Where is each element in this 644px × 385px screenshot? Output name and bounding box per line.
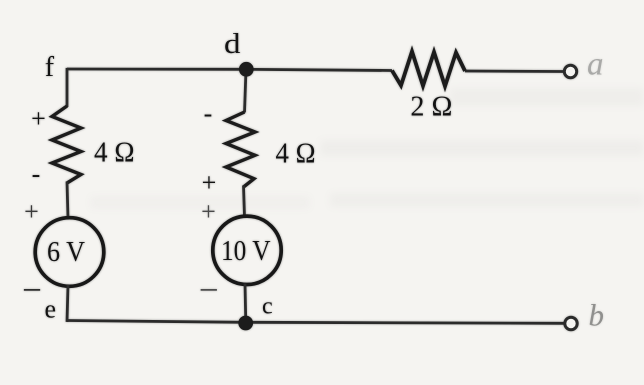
wire left vertical f down to R1 <box>66 68 69 107</box>
svg-text:−: − <box>22 270 42 309</box>
svg-text:d: d <box>224 29 241 60</box>
node c junction dot <box>238 316 253 331</box>
svg-text:+: + <box>201 197 216 226</box>
wire from node d down to R2 <box>245 69 247 112</box>
wire top from d to 2ohm resistor <box>246 69 392 70</box>
wire bottom from c to terminal b <box>246 322 564 323</box>
resistor R1 4ohm (left vertical) <box>52 106 81 183</box>
soft scan halo of circuit <box>22 29 604 333</box>
svg-text:4 Ω: 4 Ω <box>94 136 135 168</box>
resistor R2 4ohm (middle vertical) <box>226 112 255 187</box>
svg-text:+: + <box>24 197 39 226</box>
svg-text:+: + <box>202 168 217 197</box>
wire 10V source to node c <box>244 284 247 319</box>
wire R2 to 10V source <box>244 186 245 218</box>
svg-text:b: b <box>589 298 605 333</box>
wire from 2ohm resistor to terminal a <box>465 70 563 73</box>
svg-text:4 Ω: 4 Ω <box>276 138 316 170</box>
svg-text:a: a <box>587 47 604 83</box>
svg-text:c: c <box>262 293 273 319</box>
svg-text:e: e <box>45 294 57 323</box>
svg-text:-: - <box>32 160 41 189</box>
svg-text:2 Ω: 2 Ω <box>410 90 452 122</box>
svg-text:f: f <box>45 52 55 83</box>
resistor R3 2ohm (horizontal top) <box>392 52 465 87</box>
wire 6V source to node e <box>67 285 68 322</box>
svg-text:−: − <box>199 270 219 309</box>
voltage source V1 6V circle <box>35 218 104 287</box>
voltage source V2 10V circle <box>213 216 281 284</box>
wire R1 to 6V source <box>67 182 68 219</box>
svg-text:-: - <box>204 99 213 128</box>
svg-text:10 V: 10 V <box>221 235 271 267</box>
svg-text:+: + <box>31 104 46 133</box>
svg-text:6 V: 6 V <box>47 236 85 268</box>
node d junction dot <box>239 62 254 77</box>
terminal a open circle <box>564 65 576 77</box>
terminal b open circle <box>565 317 577 329</box>
wire top from f to d <box>67 68 246 71</box>
wire bottom from e to c <box>67 321 246 323</box>
